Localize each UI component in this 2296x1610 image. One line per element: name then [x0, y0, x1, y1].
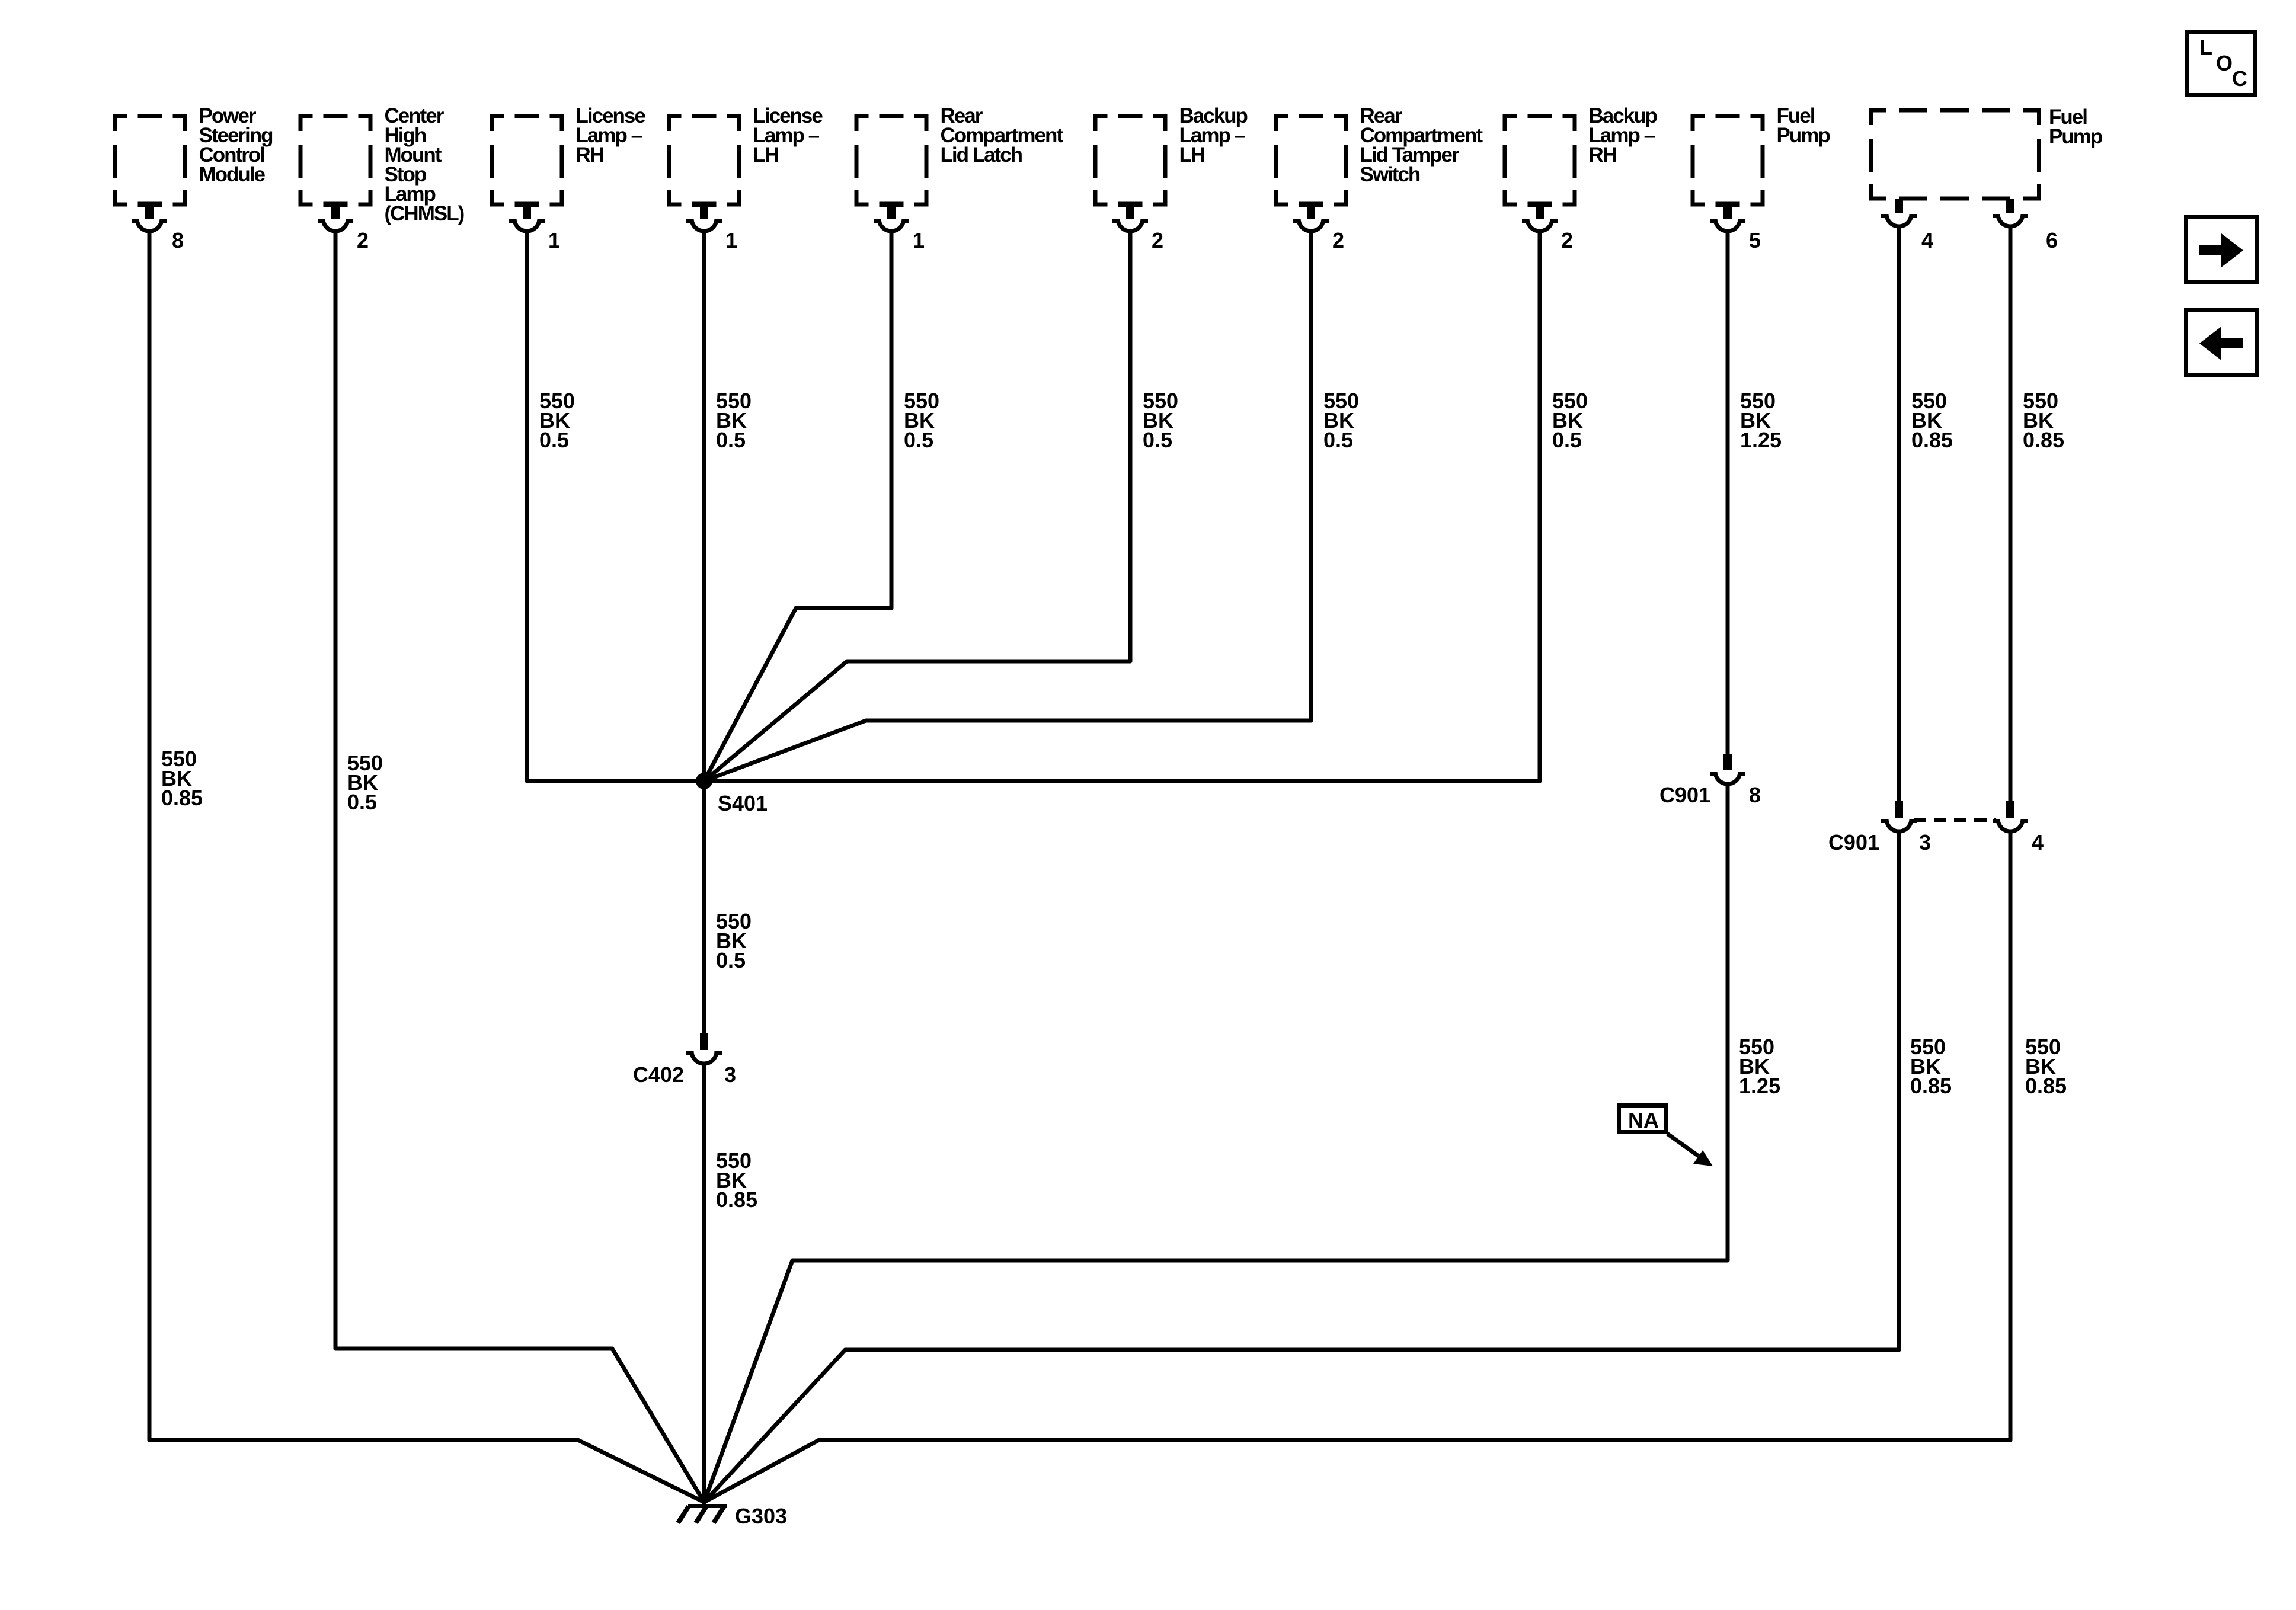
svg-text:1: 1 [548, 228, 560, 252]
svg-text:2: 2 [357, 228, 369, 252]
wire Rear Compartment Lid Tamper Switch to S401 [704, 231, 1311, 781]
wire License Lamp RH to S401 trunk to Backup Lamp RH [527, 231, 1540, 781]
connector box Power Steering Control Module [113, 104, 273, 252]
label S401 [718, 791, 768, 815]
wire Fuel Pump pin 6 to C901 pin 4 [2009, 226, 2013, 801]
svg-text:0.85: 0.85 [2025, 1074, 2067, 1098]
svg-text:0.5: 0.5 [716, 948, 746, 972]
connector box Backup Lamp LH [1093, 104, 1248, 252]
wire Backup Lamp LH to S401 [704, 231, 1130, 781]
connector box License Lamp LH [667, 104, 823, 252]
svg-text:0.85: 0.85 [1910, 1074, 1952, 1098]
svg-text:RH: RH [1589, 143, 1617, 167]
wire label 550 BK 1.25 (below C901 pin 8) [1739, 1035, 1780, 1098]
wire Rear Compartment Lid Latch to S401 [704, 231, 891, 781]
wire C402 to G303 [702, 1064, 706, 1504]
svg-text:0.5: 0.5 [1552, 428, 1582, 452]
wire C901 pin 4 to G303 [704, 831, 2010, 1502]
ground symbol G303 [678, 1506, 727, 1523]
wire label 550 BK 0.85 (below C402) [716, 1148, 757, 1212]
svg-text:1: 1 [913, 228, 925, 252]
wire label 550 BK 0.85 (Fuel Pump pin 6) [2023, 389, 2064, 452]
svg-text:RH: RH [576, 143, 604, 167]
wire Fuel Pump pin 4 to C901 pin 3 [1897, 226, 1901, 801]
wire Fuel Pump pin 5 to C901 pin 8 [1726, 231, 1730, 754]
svg-text:4: 4 [2032, 830, 2044, 854]
wire C901 pin 8 to G303 [704, 784, 1728, 1502]
wire label 550 BK 0.5 (Backup Lamp RH) [1552, 389, 1588, 452]
svg-text:Module: Module [199, 163, 266, 186]
svg-text:2: 2 [1332, 228, 1344, 252]
svg-text:5: 5 [1749, 228, 1761, 252]
splice S401 [696, 773, 712, 789]
svg-text:NA: NA [1628, 1108, 1659, 1132]
wire label 550 BK 0.85 (below C901 pin 3) [1910, 1035, 1952, 1098]
svg-text:3: 3 [1919, 830, 1931, 854]
svg-text:0.85: 0.85 [161, 786, 203, 810]
dashed link between C901 pin 3 and pin 4 [1914, 818, 1996, 822]
connector box Rear Compartment Lid Tamper Switch [1274, 104, 1483, 252]
wire label 550 BK 0.5 (above C402) [716, 909, 752, 972]
svg-text:0.5: 0.5 [347, 790, 377, 814]
svg-text:Switch: Switch [1360, 163, 1420, 186]
svg-text:(CHMSL): (CHMSL) [385, 202, 464, 225]
svg-text:1.25: 1.25 [1739, 1074, 1780, 1098]
connector C402 pin 3 [633, 1033, 736, 1087]
svg-text:1: 1 [725, 228, 737, 252]
svg-text:0.85: 0.85 [2023, 428, 2064, 452]
svg-text:0.5: 0.5 [904, 428, 933, 452]
connector C901 pin 3 [1828, 801, 1931, 854]
wire C901 pin 3 to G303 [704, 831, 1899, 1502]
svg-text:0.5: 0.5 [539, 428, 569, 452]
legend arrow left box [2186, 311, 2257, 376]
svg-text:Lid Latch: Lid Latch [941, 143, 1022, 167]
svg-text:0.5: 0.5 [1323, 428, 1353, 452]
svg-text:0.85: 0.85 [1911, 428, 1953, 452]
svg-text:LH: LH [1179, 143, 1205, 167]
wire label 550 BK 0.5 (License Lamp LH) [716, 389, 752, 452]
svg-text:0.85: 0.85 [716, 1188, 757, 1212]
svg-text:3: 3 [724, 1062, 736, 1087]
svg-text:0.5: 0.5 [1143, 428, 1172, 452]
connector C901 pin 8 [1659, 754, 1761, 807]
wire label 550 BK 0.5 (CHMSL) [347, 751, 383, 814]
svg-text:2: 2 [1561, 228, 1573, 252]
svg-text:8: 8 [1749, 783, 1761, 807]
svg-text:4: 4 [1921, 228, 1933, 252]
svg-text:S401: S401 [718, 791, 768, 815]
connector box Center High Mount Stop Lamp (CHMSL) [299, 104, 464, 252]
label G303 [735, 1504, 787, 1528]
svg-text:0.5: 0.5 [716, 428, 746, 452]
svg-text:Pump: Pump [2049, 125, 2102, 148]
wire label 550 BK 0.85 (below C901 pin 4) [2025, 1035, 2067, 1098]
NA note box with arrow [1619, 1106, 1713, 1167]
svg-text:C901: C901 [1659, 783, 1710, 807]
svg-text:8: 8 [172, 228, 184, 252]
svg-text:L: L [2199, 35, 2212, 59]
connector box Rear Compartment Lid Latch [855, 104, 1064, 252]
wire label 550 BK 1.25 (Fuel Pump pin 5) [1740, 389, 1782, 452]
wire CHMSL to G303 [335, 231, 704, 1502]
legend arrow right box [2186, 217, 2257, 283]
svg-text:G303: G303 [735, 1504, 787, 1528]
connector box Fuel Pump (pins 4 and 6) [1869, 105, 2102, 252]
svg-text:C: C [2232, 66, 2247, 91]
svg-text:LH: LH [753, 143, 779, 167]
svg-text:1.25: 1.25 [1740, 428, 1782, 452]
wire label 550 BK 0.5 (License Lamp RH) [539, 389, 575, 452]
LOC legend box [2187, 32, 2255, 95]
svg-text:2: 2 [1152, 228, 1163, 252]
svg-text:C402: C402 [633, 1062, 684, 1087]
wire label 550 BK 0.5 (Backup Lamp LH) [1143, 389, 1178, 452]
connector box Fuel Pump (pin 5) [1691, 104, 1830, 252]
wire label 550 BK 0.5 (Lid Tamper Switch) [1323, 389, 1359, 452]
svg-text:O: O [2216, 51, 2233, 75]
connector box License Lamp RH [490, 104, 646, 252]
svg-text:C901: C901 [1828, 830, 1879, 854]
connector C901 pin 4 [1993, 801, 2044, 854]
wire label 550 BK 0.85 (PSCM) [161, 747, 203, 810]
wire label 550 BK 0.5 (Lid Latch) [904, 389, 939, 452]
wire License Lamp LH through S401 to C402 [702, 231, 706, 1033]
svg-text:6: 6 [2046, 228, 2058, 252]
svg-text:Pump: Pump [1777, 124, 1830, 147]
wire PSCM to G303 [149, 231, 704, 1502]
connector box Backup Lamp RH [1503, 104, 1657, 252]
wire label 550 BK 0.85 (Fuel Pump pin 4) [1911, 389, 1953, 452]
